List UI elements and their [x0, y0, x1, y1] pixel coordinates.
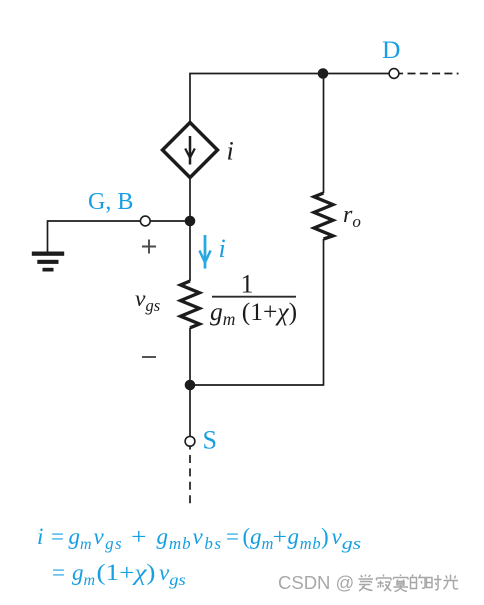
- svg-text:vgs: vgs: [159, 560, 186, 589]
- current source arrow: [189, 136, 192, 165]
- svg-text:i: i: [227, 137, 234, 166]
- svg-text:gmb: gmb: [157, 524, 192, 553]
- resistor r_o: [314, 193, 333, 239]
- wire: diamond top to top rail: [189, 74, 191, 125]
- dependent current source U1 (diamond): [163, 123, 218, 178]
- svg-text:ro: ro: [343, 202, 361, 231]
- wire: bottom rail to right branch: [190, 384, 324, 386]
- watermark chinese glyph shi: [427, 575, 442, 590]
- wire: right branch lower segment: [323, 239, 325, 386]
- wire: top rail horizontal to D terminal: [189, 73, 389, 75]
- watermark chinese glyph ji: [377, 575, 392, 592]
- node: gate junction dot: [185, 216, 196, 227]
- svg-text:(1+χ): (1+χ): [97, 560, 156, 585]
- wire: dashed lead at S: [189, 455, 191, 505]
- equation line 2: [52, 560, 186, 589]
- terminal D open circle: [389, 69, 399, 79]
- terminal G,B open circle: [140, 216, 150, 226]
- svg-text:gm: gm: [72, 560, 95, 589]
- ground: [32, 252, 64, 256]
- fraction bar: [212, 296, 296, 298]
- wire: G,B horizontal left segment: [48, 220, 141, 222]
- wire: ground lead: [47, 220, 49, 252]
- svg-text:i: i: [219, 234, 226, 263]
- svg-text:CSDN @: CSDN @: [278, 572, 354, 593]
- wire: gate node to resistor top: [189, 221, 191, 281]
- wire: diamond bottom to gate node: [189, 176, 191, 221]
- wire: stub right of D terminal: [399, 73, 403, 75]
- wire: right branch upper segment: [323, 74, 325, 194]
- svg-text:vgs: vgs: [135, 286, 160, 315]
- wire: stub below S: [189, 446, 191, 449]
- svg-text:vbs: vbs: [193, 524, 223, 553]
- wire: dashed lead at D: [408, 73, 459, 75]
- current arrow i (cyan): [204, 235, 207, 269]
- minus polarity sign: [142, 356, 156, 358]
- plus polarity sign: [142, 240, 156, 254]
- svg-text:vgs: vgs: [94, 524, 124, 553]
- watermark chinese glyph de: [411, 575, 426, 589]
- wire: G,B circle to gate node: [150, 220, 190, 222]
- svg-text:): ): [321, 524, 329, 549]
- watermark chinese glyph guang: [444, 575, 459, 590]
- svg-text:gm: gm: [250, 524, 274, 553]
- equation line 1: [37, 524, 362, 553]
- svg-text:+: +: [273, 524, 288, 549]
- svg-text:S: S: [203, 426, 217, 455]
- node: drain junction dot: [318, 68, 329, 79]
- svg-text:gm: gm: [69, 524, 92, 553]
- svg-text:+: +: [131, 524, 147, 549]
- svg-text:=: =: [51, 524, 64, 549]
- terminal S open circle: [185, 436, 195, 446]
- node: source junction dot: [185, 380, 196, 391]
- watermark chinese glyph ai: [359, 575, 374, 592]
- svg-text:vgs: vgs: [332, 524, 362, 553]
- wire: resistor bottom to source node: [189, 328, 191, 385]
- svg-text:=: =: [226, 524, 239, 549]
- svg-text:i: i: [37, 524, 43, 549]
- svg-text:G, B: G, B: [88, 189, 133, 215]
- svg-text:D: D: [382, 35, 400, 64]
- resistor 1/gm(1+chi): [181, 281, 200, 328]
- svg-text:1: 1: [241, 270, 254, 299]
- svg-text:gmb: gmb: [288, 524, 322, 553]
- svg-text:gm (1+χ): gm (1+χ): [210, 297, 297, 329]
- wire: source node to S terminal: [189, 385, 191, 436]
- watermark chinese glyph mo: [394, 575, 409, 592]
- svg-text:=: =: [52, 560, 65, 585]
